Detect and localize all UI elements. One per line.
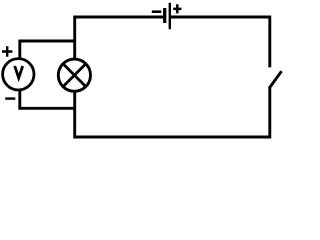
lamp cross [64,65,85,86]
label: battery minus sign [152,10,162,13]
battery B1 negative plate (short thick bar) [163,8,166,23]
wire: voltmeter top lead [20,41,76,59]
wire: voltmeter bottom lead [20,90,76,108]
battery B1 positive plate (long thin bar) [169,3,171,29]
lamp L1 circle [58,59,90,91]
voltmeter letter V [15,66,23,78]
label: voltmeter minus sign [5,97,15,99]
switch S1 (open blade) [270,72,281,87]
voltmeter V1 circle [3,59,34,90]
label: battery plus sign [173,4,181,13]
wire: top-right segment from battery + to switch top [170,17,270,67]
label: voltmeter plus sign [2,46,12,56]
wire: main loop (top-left segment, left side, bottom, lower-right side) [75,17,270,137]
